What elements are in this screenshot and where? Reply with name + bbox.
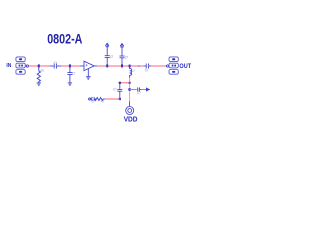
wire right branch y89.5 [130,89,137,91]
VDD stub + port circle [129,101,131,106]
ground (under R1) [37,83,41,86]
inductor L1 (RF choke to VDD) [130,66,132,78]
svg-text:IN: IN [6,63,11,69]
node junction at R1 [38,64,40,67]
net tick (blue segment before C8) [137,65,140,67]
capacitor C2 (shunt to ground) [67,66,72,83]
node junction at (129.6,89.5) [128,88,130,90]
node junction at C3 [106,64,108,67]
svg-text:0802-A: 0802-A [47,31,82,47]
label U1 [86,64,88,66]
capacitor C3 (decoupling to VCC) [105,44,110,66]
wire to off-page arrow [141,89,146,91]
wire chain y99 [105,98,120,100]
node junction T at y82.8 [129,82,131,84]
wire C1 to C2 junction [61,65,80,67]
power VCC arrow 1 [105,43,109,46]
terminal (chain end) [89,98,91,100]
wire L1 down to VDD node [129,78,131,102]
svg-text:C?: C? [113,87,117,92]
node corner at (119.8,99) [119,98,121,100]
resistor R1 (shunt to ground) [37,66,40,83]
wire left branch y82.8 [120,82,130,84]
svg-text:C?: C? [110,54,114,59]
wire IN to R junction [29,65,50,67]
off-page connector arrow [145,88,147,92]
IN pin stub + terminal circle [25,65,26,67]
node junction at C4 [121,64,123,67]
svg-text:C?: C? [125,54,129,59]
capacitor C6 (series in chain) [91,97,94,101]
wire C8 to OUT [151,65,167,67]
capacitor C8 (series, output) [144,64,151,69]
power port VDD (double circle) [126,107,134,115]
wire U1 out to OUT cap [94,65,97,67]
connector J1 IN (3-pin) [16,57,25,74]
svg-text:C?: C? [54,60,58,65]
capacitor C1 (series, input) [50,65,54,67]
wire tick to C8 [140,65,143,67]
capacitor C5 (VDD filter) [117,83,122,99]
svg-text:OUT: OUT [179,63,191,70]
ground (under C2) [68,83,72,86]
resistor R2 (bias, horizontal) [95,98,105,101]
node junction at L1 [129,65,131,68]
svg-text:R?: R? [101,98,105,103]
ground (under U1) [86,69,91,80]
svg-text:R?: R? [41,68,45,73]
svg-text:C?: C? [137,90,141,95]
svg-text:VDD: VDD [124,116,138,123]
power VCC arrow 2 [120,44,124,47]
svg-text:C?: C? [72,71,76,76]
capacitor C4 (decoupling to VCC) [120,44,125,66]
OUT terminal circle [167,65,169,67]
svg-text:C?: C? [145,67,149,72]
node corner at (119.8,82.8) [119,82,121,84]
node junction at C2 [69,64,71,67]
op-amp U1 (buffer amplifier) [84,61,94,70]
svg-text:L?: L? [132,68,136,73]
capacitor C7 (to test point) [138,87,141,91]
connector J2 OUT (3-pin) [169,57,178,74]
svg-text:C?: C? [91,98,95,103]
